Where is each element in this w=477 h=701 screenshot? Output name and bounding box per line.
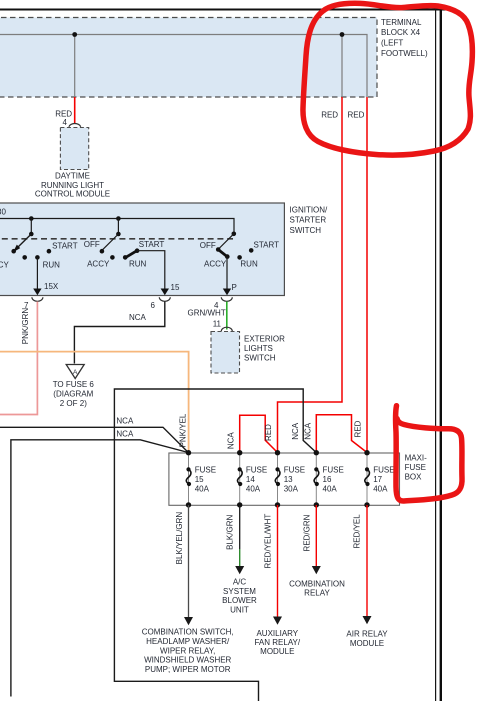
svg-text:AIR RELAY: AIR RELAY bbox=[346, 630, 388, 639]
svg-text:BLOWER: BLOWER bbox=[222, 596, 257, 605]
svg-text:RED: RED bbox=[264, 424, 273, 441]
svg-text:BLK/YEL/GRN: BLK/YEL/GRN bbox=[175, 512, 184, 565]
mechanical link dashed line bbox=[0, 238, 233, 240]
svg-text:RED: RED bbox=[354, 420, 363, 437]
svg-text:15: 15 bbox=[195, 475, 204, 484]
svg-text:NCA: NCA bbox=[304, 422, 313, 440]
connector arc at DRL module bbox=[69, 124, 81, 127]
svg-text:A/C: A/C bbox=[233, 577, 247, 586]
svg-text:BLK/GRN: BLK/GRN bbox=[226, 515, 235, 550]
svg-text:MAXI-: MAXI- bbox=[405, 454, 428, 463]
svg-text:FUSE: FUSE bbox=[284, 466, 305, 475]
wire drop in band red A bbox=[341, 35, 343, 98]
svg-text:30A: 30A bbox=[284, 485, 299, 494]
switch gang 1 bbox=[0, 216, 78, 295]
svg-text:RUN: RUN bbox=[240, 259, 258, 268]
page border thin line bbox=[435, 10, 437, 701]
svg-text:MODULE: MODULE bbox=[260, 647, 294, 656]
svg-text:16: 16 bbox=[323, 475, 332, 484]
svg-text:START: START bbox=[254, 240, 280, 249]
svg-text:NCA: NCA bbox=[116, 417, 134, 426]
svg-text:PUMP; WIPER MOTOR: PUMP; WIPER MOTOR bbox=[145, 665, 231, 674]
wire RED to DRL module bbox=[74, 97, 76, 123]
svg-text:2 OF 2): 2 OF 2) bbox=[60, 399, 87, 408]
label IGNITION/STARTER SWITCH bbox=[290, 205, 329, 235]
wire NCA from pin 6 bbox=[74, 302, 164, 364]
svg-text:RED/YEL: RED/YEL bbox=[352, 514, 361, 549]
svg-text:TERMINAL: TERMINAL bbox=[381, 18, 422, 27]
wire drop in band to DRL bbox=[74, 35, 76, 98]
wire NCA lower loop bbox=[11, 440, 188, 697]
label AUXILIARY FAN RELAY MODULE bbox=[254, 629, 300, 656]
svg-text:FUSE: FUSE bbox=[195, 466, 216, 475]
svg-text:15X: 15X bbox=[44, 282, 59, 291]
page border thick line bbox=[440, 10, 442, 701]
svg-text:40A: 40A bbox=[373, 485, 388, 494]
svg-text:WINDSHIELD WASHER: WINDSHIELD WASHER bbox=[144, 656, 231, 665]
red marker annotation circle maxi-fuse box bbox=[396, 406, 463, 501]
svg-text:STARTER: STARTER bbox=[290, 216, 327, 225]
label A/C SYSTEM BLOWER UNIT bbox=[222, 577, 257, 614]
svg-text:START: START bbox=[139, 240, 165, 249]
svg-text:FUSE: FUSE bbox=[246, 466, 267, 475]
node label TERMINAL BLOCK X4 bbox=[381, 18, 428, 58]
svg-text:NCA: NCA bbox=[227, 432, 236, 450]
svg-text:BLOCK X4: BLOCK X4 bbox=[381, 28, 421, 37]
svg-text:WIPER RELAY,: WIPER RELAY, bbox=[160, 646, 215, 655]
connector arc pin 7 bbox=[32, 297, 43, 301]
svg-text:(LEFT: (LEFT bbox=[381, 39, 403, 48]
maxi-fuse box bbox=[169, 453, 400, 505]
svg-text:4: 4 bbox=[63, 118, 68, 127]
label COMBINATION RELAY bbox=[289, 580, 345, 598]
switch gang 2 bbox=[84, 216, 180, 295]
label MAXI-FUSE BOX bbox=[405, 454, 428, 482]
svg-text:30: 30 bbox=[0, 208, 6, 217]
svg-text:AUXILIARY: AUXILIARY bbox=[256, 629, 298, 638]
svg-text:ACCY: ACCY bbox=[87, 260, 110, 269]
fuse 15 bbox=[186, 450, 216, 508]
switch gang 3 bbox=[200, 232, 279, 296]
svg-text:RELAY: RELAY bbox=[304, 588, 330, 597]
svg-text:40A: 40A bbox=[246, 485, 261, 494]
svg-text:11: 11 bbox=[213, 320, 222, 329]
svg-text:14: 14 bbox=[246, 475, 255, 484]
svg-text:TO FUSE 6: TO FUSE 6 bbox=[53, 380, 95, 389]
label COMBINATION SWITCH HEADLAMP WASHER WIPER RELAY WINDSHIELD WASHER PUMP WIPER MOTOR bbox=[142, 628, 234, 675]
svg-text:RED: RED bbox=[321, 110, 338, 119]
connector arc pin 6 bbox=[159, 297, 170, 301]
label DAYTIME RUNNING LIGHT CONTROL MODULE bbox=[35, 172, 110, 199]
svg-text:SWITCH: SWITCH bbox=[244, 353, 276, 362]
terminal block X4 band bbox=[0, 18, 377, 98]
wire NCA upper from left bbox=[0, 427, 188, 452]
connector arc pin 4 bbox=[221, 297, 232, 301]
exterior lights switch box bbox=[211, 332, 240, 374]
svg-text:FUSE: FUSE bbox=[405, 463, 426, 472]
svg-text:OFF: OFF bbox=[200, 241, 216, 250]
svg-text:A: A bbox=[73, 369, 78, 376]
svg-text:(DIAGRAM: (DIAGRAM bbox=[53, 389, 93, 398]
red marker annotation circle terminal block bbox=[303, 3, 472, 155]
svg-text:RED/YEL/WHT: RED/YEL/WHT bbox=[263, 514, 272, 569]
svg-text:ACCY: ACCY bbox=[204, 259, 227, 268]
svg-text:HEADLAMP WASHER/: HEADLAMP WASHER/ bbox=[146, 637, 230, 646]
wire NCA to fuse 16 and page loop bbox=[114, 389, 316, 701]
svg-text:LIGHTS: LIGHTS bbox=[244, 344, 273, 353]
svg-text:CONTROL MODULE: CONTROL MODULE bbox=[35, 189, 110, 198]
wire PNK/YEL bbox=[0, 352, 189, 453]
wire RED B long bbox=[366, 97, 368, 453]
svg-text:RED: RED bbox=[348, 110, 365, 119]
svg-text:OFF: OFF bbox=[84, 240, 100, 249]
svg-text:NCA: NCA bbox=[116, 430, 134, 439]
svg-text:START: START bbox=[52, 242, 78, 251]
svg-text:MODULE: MODULE bbox=[350, 639, 384, 648]
wire BLK/YEL/GRN from fuse 15 bbox=[188, 505, 190, 618]
svg-text:FUSE: FUSE bbox=[323, 466, 344, 475]
wire bus inside band bbox=[0, 35, 367, 98]
fuse 14 bbox=[237, 450, 267, 508]
fuse 16 bbox=[314, 450, 344, 508]
off-page triangle TO FUSE 6 bbox=[66, 365, 84, 379]
svg-text:PNK/YEL: PNK/YEL bbox=[179, 413, 188, 447]
wire RED bridge fuse16-fuse17 bbox=[316, 415, 367, 453]
svg-text:FUSE: FUSE bbox=[373, 466, 394, 475]
daytime running light control module box bbox=[60, 128, 88, 170]
wire GRN/WHT from pin 4 bbox=[226, 302, 228, 330]
svg-text:40A: 40A bbox=[323, 485, 338, 494]
svg-text:GRN/WHT: GRN/WHT bbox=[188, 308, 226, 317]
svg-text:UNIT: UNIT bbox=[230, 606, 249, 615]
svg-text:DAYTIME: DAYTIME bbox=[55, 172, 90, 181]
ignition/starter switch box bbox=[0, 203, 284, 296]
svg-text:RUN: RUN bbox=[43, 261, 61, 270]
junction dot bbox=[72, 32, 77, 37]
svg-text:COMBINATION SWITCH,: COMBINATION SWITCH, bbox=[142, 628, 234, 637]
top rule line bbox=[0, 9, 451, 11]
svg-text:NCA: NCA bbox=[291, 422, 300, 440]
wire BLK/GRN from fuse 14 bbox=[239, 505, 241, 549]
svg-text:IGNITION/: IGNITION/ bbox=[290, 205, 329, 214]
wire RED A long bbox=[278, 97, 343, 453]
svg-text:SYSTEM: SYSTEM bbox=[223, 587, 256, 596]
svg-text:BOX: BOX bbox=[405, 472, 423, 481]
svg-text:13: 13 bbox=[284, 475, 293, 484]
svg-text:15: 15 bbox=[171, 283, 180, 292]
wire RED/GRN from fuse 16 bbox=[315, 505, 317, 567]
svg-text:ACCY: ACCY bbox=[0, 261, 9, 270]
svg-text:FOOTWELL): FOOTWELL) bbox=[381, 49, 428, 58]
fuse 17 bbox=[364, 450, 394, 508]
svg-text:6: 6 bbox=[151, 301, 156, 310]
svg-text:40A: 40A bbox=[195, 485, 210, 494]
svg-text:SWITCH: SWITCH bbox=[290, 226, 322, 235]
svg-text:NCA: NCA bbox=[129, 313, 147, 322]
label TO FUSE 6 (DIAGRAM 2 OF 2) bbox=[53, 380, 95, 408]
svg-text:RUN: RUN bbox=[129, 260, 147, 269]
wire PNK/GRN from pin 7 bbox=[0, 302, 37, 415]
svg-text:RED/GRN: RED/GRN bbox=[303, 514, 312, 551]
svg-text:P: P bbox=[232, 283, 237, 292]
svg-text:FAN RELAY/: FAN RELAY/ bbox=[254, 638, 300, 647]
wire RED/YEL from fuse 17 bbox=[366, 505, 368, 617]
wire terminal 30 bus bbox=[0, 219, 234, 234]
svg-text:EXTERIOR: EXTERIOR bbox=[244, 334, 285, 343]
svg-text:PNK/GRN: PNK/GRN bbox=[21, 308, 30, 345]
junction dot bbox=[340, 32, 345, 37]
fuse 13 bbox=[275, 450, 305, 508]
label EXTERIOR LIGHTS SWITCH bbox=[244, 334, 285, 362]
connector arc exterior lights switch bbox=[221, 327, 232, 331]
label AIR RELAY MODULE bbox=[346, 630, 388, 648]
wire RED/YEL/WHT from fuse 13 bbox=[277, 505, 279, 617]
svg-text:17: 17 bbox=[373, 475, 382, 484]
wire RED bridge fuse14-fuse13 bbox=[240, 415, 278, 452]
